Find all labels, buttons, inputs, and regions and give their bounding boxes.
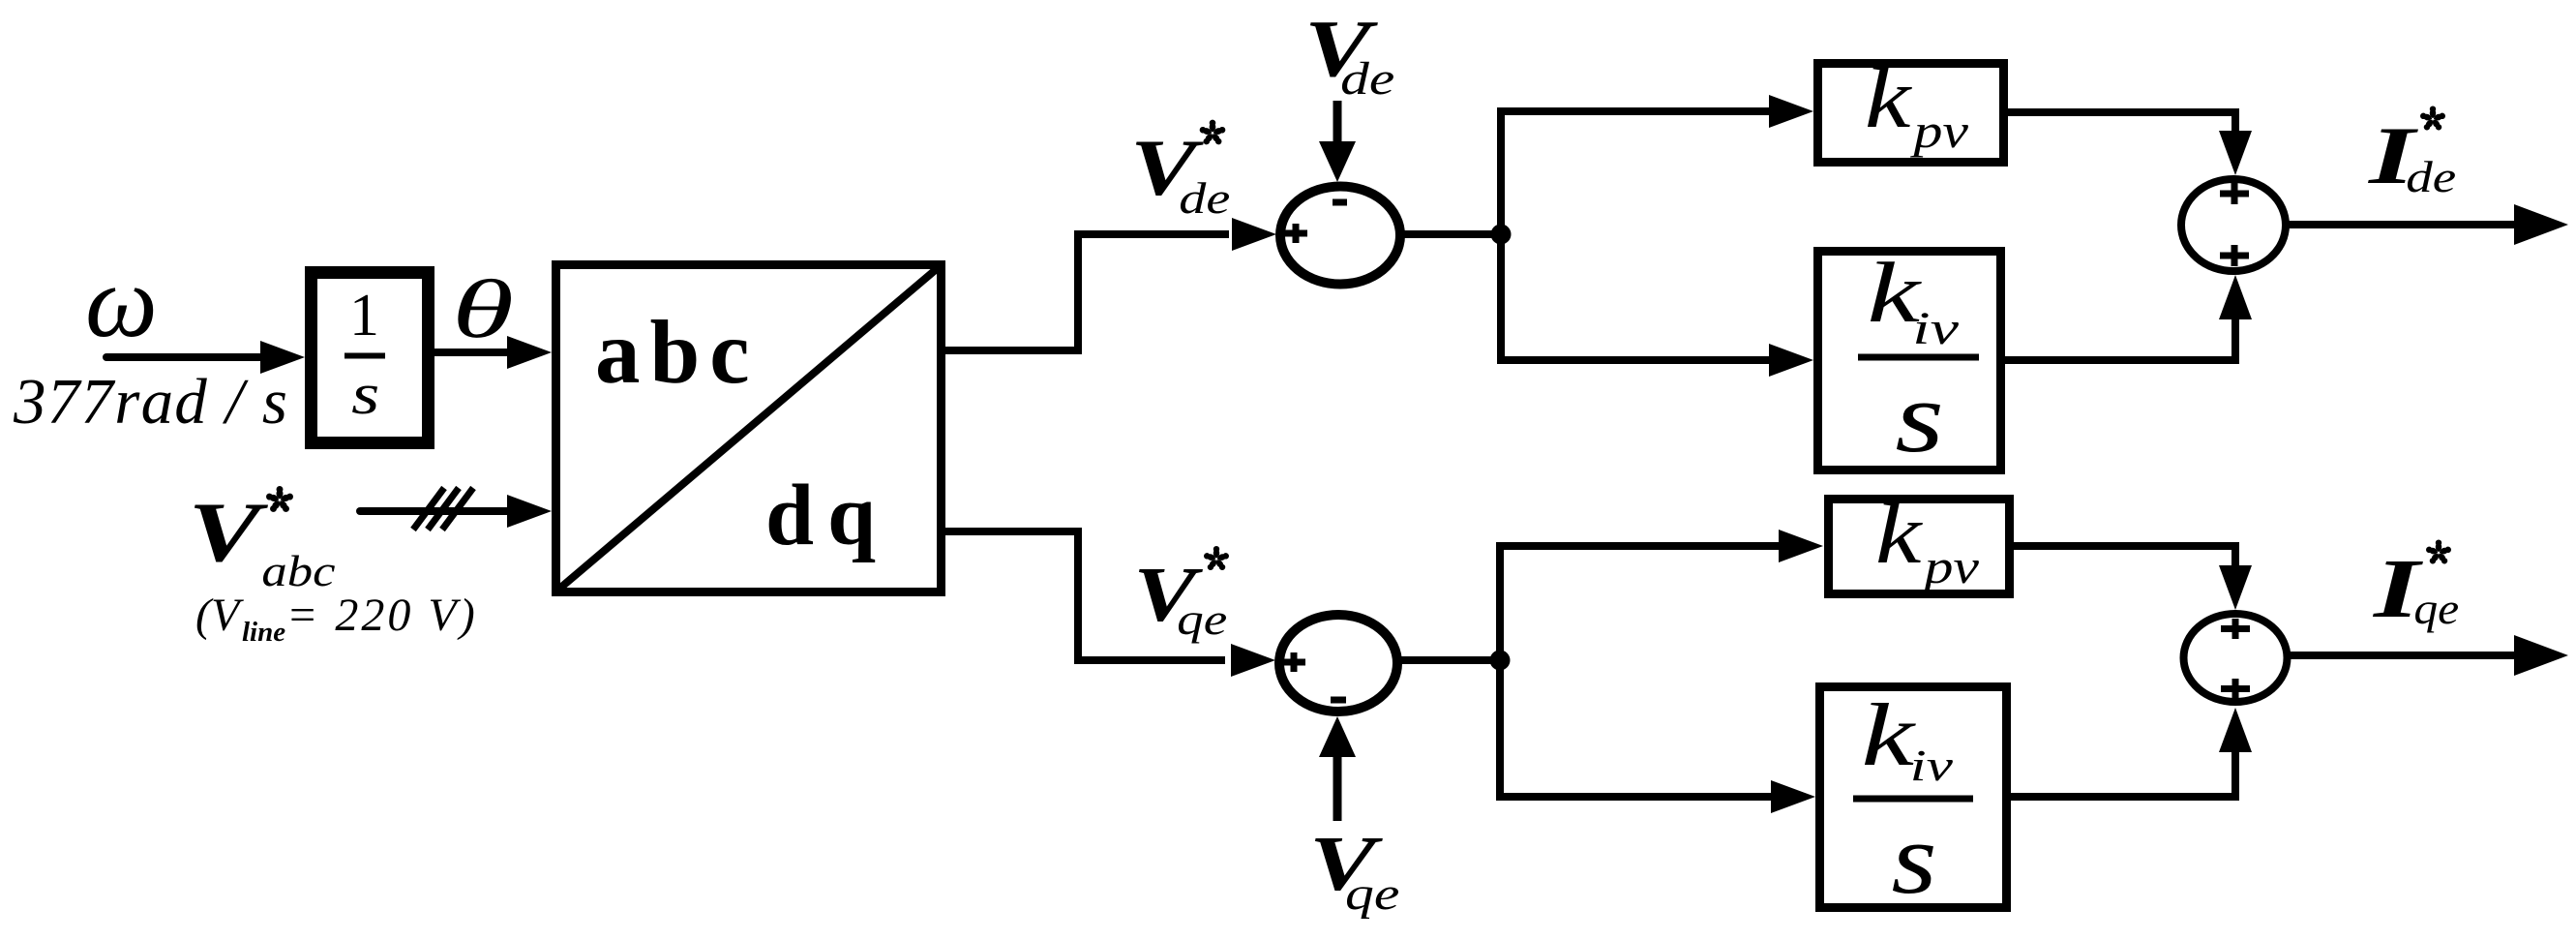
summing junction S4 (kpv2 + kiv2)	[2184, 614, 2288, 702]
svg-text:qe: qe	[1177, 594, 1227, 644]
svg-text:abc: abc	[595, 303, 760, 403]
svg-text:line: line	[242, 617, 285, 648]
wire abc-dq q-axis output to summing junction S3	[945, 531, 1225, 660]
node A junction dot	[1491, 225, 1512, 245]
output arrow I*qe	[2288, 652, 2518, 659]
summing junction S1 (V*de - Vde)	[1280, 187, 1400, 285]
wire kpv1 to S2	[2008, 112, 2235, 133]
block kpv2	[1829, 500, 2010, 594]
svg-text:k: k	[1861, 685, 1917, 784]
summing junction S2 (kpv1 + kiv1)	[2181, 179, 2286, 271]
wire node B to kpv2	[1496, 542, 1781, 550]
svg-text:s: s	[351, 362, 379, 426]
wire abc-dq d-axis output to summing junction S1	[945, 234, 1229, 350]
wire node A to kpv1	[1497, 107, 1771, 115]
wire kpv2 to S4	[2014, 546, 2235, 567]
wire theta: 1/s to abc-dq	[434, 349, 509, 356]
wire node B to kiv2	[1496, 793, 1773, 801]
svg-text:iv: iv	[1910, 741, 1954, 790]
wire node B branch vertical	[1496, 542, 1504, 801]
block kpv1	[1818, 64, 2004, 163]
svg-text:= 220 V): = 220 V)	[286, 590, 478, 641]
svg-text:V: V	[188, 486, 268, 580]
block kiv1	[1818, 252, 2001, 470]
wire node A branch vertical	[1497, 107, 1505, 364]
svg-text:qe: qe	[2413, 584, 2459, 633]
wire S1 to node A	[1402, 230, 1501, 238]
svg-text:iv: iv	[1912, 303, 1960, 354]
wire Vqe up arrow into S3	[1333, 757, 1342, 821]
svg-text:θ: θ	[452, 262, 514, 355]
block kiv2	[1820, 687, 2007, 908]
svg-text:(V: (V	[195, 590, 244, 641]
svg-text:pv: pv	[1910, 104, 1969, 158]
svg-text:s: s	[1892, 802, 1937, 915]
svg-text:de: de	[2406, 152, 2456, 201]
svg-text:abc: abc	[261, 547, 335, 595]
svg-text:ω: ω	[85, 245, 158, 358]
wire node A to kiv1	[1497, 356, 1771, 364]
node B junction dot	[1490, 651, 1511, 671]
svg-text:k: k	[1865, 51, 1912, 146]
wire S3 to node B	[1398, 656, 1500, 664]
svg-text:377rad / s: 377rad / s	[13, 366, 287, 438]
wire V*abc input arrow with 3-phase slashes	[360, 507, 509, 515]
svg-text:dq: dq	[765, 468, 889, 563]
svg-text:de: de	[1340, 53, 1394, 105]
wire kiv2 to S4	[2011, 750, 2235, 797]
svg-text:s: s	[1895, 360, 1944, 473]
wire kiv1 to S2	[2005, 318, 2235, 360]
wire Vde down arrow into S1	[1333, 101, 1342, 141]
summing junction S3 (V*qe - Vqe)	[1279, 615, 1397, 712]
block 1/s integrator	[312, 273, 429, 443]
wire omega input arrow	[106, 353, 263, 361]
block abc/dq transform	[556, 265, 942, 592]
svg-text:de: de	[1179, 173, 1230, 223]
svg-text:1: 1	[349, 283, 379, 349]
svg-text:pv: pv	[1921, 539, 1980, 593]
svg-text:qe: qe	[1345, 868, 1399, 920]
output arrow I*de	[2286, 221, 2518, 228]
svg-text:k: k	[1875, 487, 1923, 582]
